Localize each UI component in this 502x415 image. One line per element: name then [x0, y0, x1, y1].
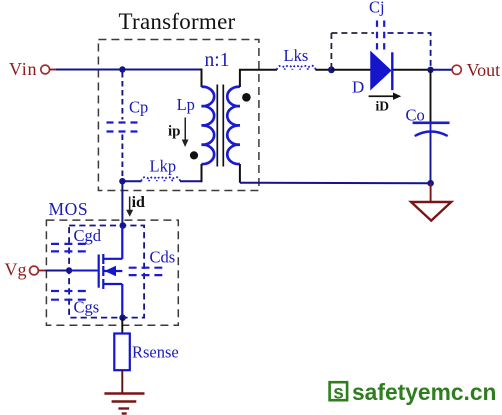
- wire Lkp to primary: [180, 180, 202, 182]
- transformer boundary box: [98, 40, 259, 191]
- svg-text:Cp: Cp: [129, 98, 148, 117]
- bottom rail secondary side: [240, 182, 431, 185]
- wire Vout node down to Co: [430, 70, 432, 122]
- wire gate node to MOSFET gate: [69, 270, 98, 272]
- svg-text:ip: ip: [168, 124, 181, 140]
- wire Cp branch upper (dashed): [121, 72, 123, 120]
- parasitic network dashed loop: [69, 226, 144, 318]
- svg-text:D: D: [352, 78, 364, 97]
- wire node B to Lkp: [122, 180, 141, 182]
- Vin terminal: [41, 65, 50, 74]
- logo icon square: [330, 382, 348, 403]
- wire Cp branch lower (dashed): [121, 135, 123, 181]
- svg-text:Lkp: Lkp: [150, 157, 177, 176]
- svg-text:id: id: [132, 194, 145, 211]
- transformer primary top stub: [201, 69, 203, 88]
- transformer core: [217, 85, 223, 167]
- inductor Lp primary winding: [202, 87, 215, 164]
- capacitor Cgs: [51, 291, 86, 300]
- inductor Ls secondary winding: [227, 87, 240, 164]
- capacitor Cgd: [51, 244, 86, 252]
- wire anode to diode: [331, 69, 371, 71]
- node A top-left junction: [119, 66, 125, 72]
- MOSFET body arrow: [105, 266, 117, 276]
- svg-text:Cj: Cj: [369, 0, 385, 17]
- resistor Rsense: [114, 334, 130, 371]
- svg-text:Rsense: Rsense: [132, 343, 179, 362]
- capacitor Cp: [107, 123, 138, 132]
- svg-text:Vin: Vin: [9, 59, 37, 79]
- wire diode cathode to Vout node: [394, 69, 431, 71]
- iD arrow: [369, 93, 402, 100]
- wire Cj branch right (dashed): [388, 33, 431, 68]
- svg-text:Lp: Lp: [177, 95, 195, 114]
- wire Vin terminal stub: [49, 69, 57, 71]
- svg-text:Cgd: Cgd: [74, 226, 102, 245]
- wire node to output ground: [430, 183, 432, 201]
- inductor Lks: [277, 66, 316, 70]
- svg-text:Vout: Vout: [467, 60, 501, 80]
- wire drain from node B down: [121, 181, 123, 225]
- svg-text:Transformer: Transformer: [119, 9, 236, 34]
- transformer secondary top stub: [240, 70, 277, 87]
- svg-text:Cgs: Cgs: [74, 298, 100, 317]
- wire to Vout terminal: [431, 69, 453, 71]
- capacitor Cds: [129, 268, 163, 275]
- transformer primary bottom stub: [201, 164, 203, 182]
- svg-text:s: s: [333, 383, 344, 404]
- node drain junction: [120, 222, 127, 229]
- svg-text:safetyemc.cn: safetyemc.cn: [352, 379, 496, 405]
- wire Co down to ground node: [430, 133, 432, 184]
- capacitor Co: [413, 123, 450, 136]
- wire Cj branch top-left (dashed): [331, 32, 374, 34]
- wire Rsense to ground: [121, 370, 123, 393]
- svg-text:Lks: Lks: [284, 46, 309, 65]
- node B bottom-left junction: [119, 178, 125, 184]
- phase dot primary: [190, 151, 198, 159]
- wire to gate node: [46, 270, 70, 272]
- MOS boundary box: [46, 220, 178, 325]
- svg-text:n:1: n:1: [205, 50, 230, 71]
- transformer secondary bottom stub: [239, 164, 241, 183]
- phase dot secondary: [242, 93, 251, 102]
- diode D: [371, 52, 392, 90]
- svg-text:Cds: Cds: [150, 248, 176, 267]
- transistor Q1 MOSFET: [99, 226, 123, 318]
- ground (output side): [411, 202, 451, 221]
- ground (source side): [104, 394, 144, 414]
- node C diode anode junction: [328, 66, 335, 73]
- wire Vin to primary: [56, 69, 202, 71]
- svg-text:iD: iD: [376, 99, 390, 114]
- svg-text:Vg: Vg: [5, 260, 27, 280]
- capacitor Cj: [377, 21, 384, 50]
- node source junction: [119, 314, 126, 321]
- wire Cj branch left (dashed): [330, 33, 332, 69]
- inductor Lkp: [141, 177, 179, 181]
- wire Lks to diode anode node: [315, 69, 331, 71]
- node E ground junction: [427, 180, 434, 187]
- wire source to Rsense: [121, 318, 123, 334]
- wire Vg to gate node: [39, 270, 47, 272]
- svg-text:Co: Co: [406, 106, 425, 125]
- Vg terminal: [30, 266, 39, 275]
- id arrow: [126, 197, 133, 217]
- node D Vout junction: [427, 67, 433, 73]
- svg-text:MOS: MOS: [49, 199, 89, 219]
- Vout terminal: [452, 65, 461, 74]
- node gate junction: [66, 267, 72, 273]
- ip arrow: [182, 118, 189, 148]
